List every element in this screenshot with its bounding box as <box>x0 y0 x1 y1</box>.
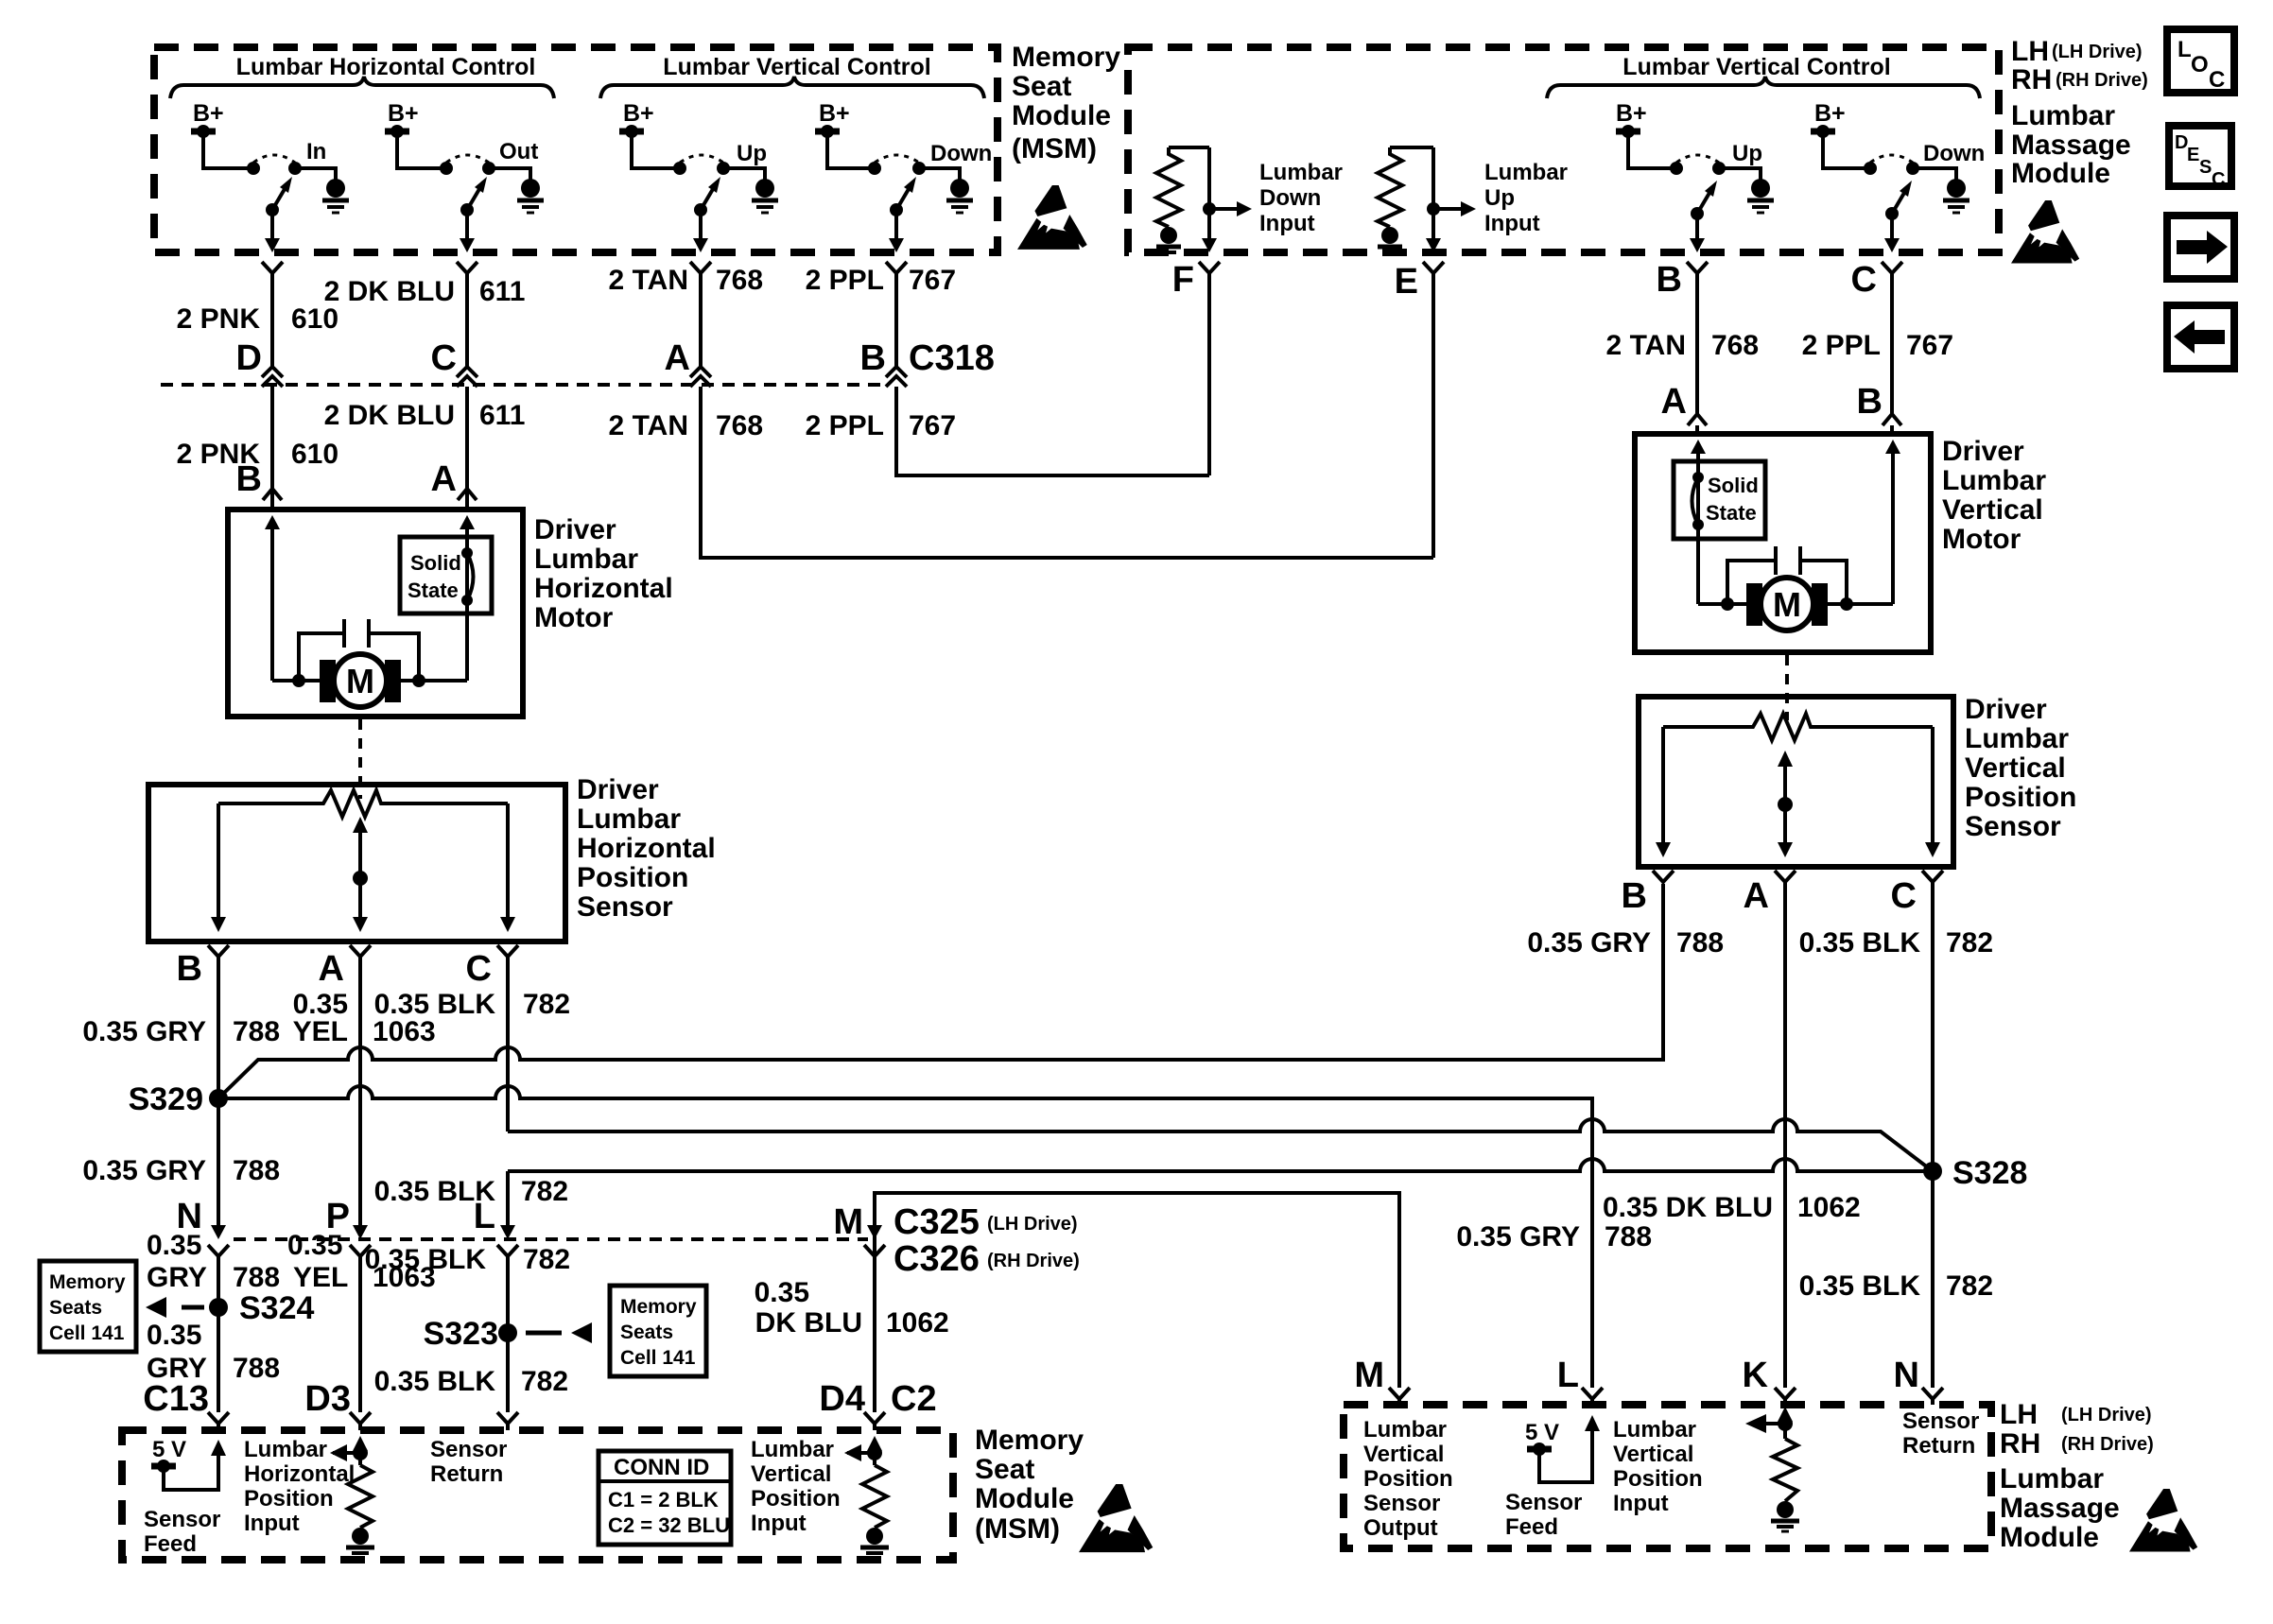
connector leaving module on E wire <box>1423 262 1444 273</box>
ground below horizontal position input resistor <box>352 1528 369 1545</box>
svg-text:Return: Return <box>1902 1433 1975 1459</box>
svg-text:5 V: 5 V <box>152 1437 186 1462</box>
reference box: CONN ID <box>599 1451 731 1545</box>
switch SW6 Down: dashed throw arc <box>1870 155 1913 163</box>
svg-text:782: 782 <box>523 989 570 1020</box>
svg-text:Module: Module <box>1012 100 1111 131</box>
svg-text:2 PPL: 2 PPL <box>806 410 884 441</box>
ground below vertical position input resistor (massage module) <box>1777 1501 1794 1518</box>
svg-text:Seat: Seat <box>1012 71 1071 102</box>
node: left brush junction <box>292 674 305 687</box>
svg-text:Horizontal: Horizontal <box>244 1461 355 1487</box>
svg-text:Output: Output <box>1363 1515 1438 1541</box>
svg-text:Solid: Solid <box>410 551 461 575</box>
svg-text:C: C <box>1891 876 1917 916</box>
svg-text:0.35 GRY: 0.35 GRY <box>1527 927 1651 959</box>
wire: brush line left (vertical motor) <box>1698 602 1751 606</box>
svg-text:CONN ID: CONN ID <box>614 1455 709 1480</box>
svg-text:S328: S328 <box>1952 1155 2027 1191</box>
wire: 0.35 DK BLU 1062 from M to D4 <box>873 1256 876 1412</box>
svg-text:Solid: Solid <box>1708 474 1759 497</box>
potentiometer resistor (horizontal) <box>218 790 508 817</box>
svg-text:S324: S324 <box>239 1290 314 1326</box>
wire: B+ feed to Out switch contact <box>397 134 441 168</box>
svg-text:L: L <box>2178 37 2192 62</box>
svg-text:C13: C13 <box>143 1379 209 1419</box>
wire: E output inside module <box>1431 147 1435 240</box>
svg-text:(RH Drive): (RH Drive) <box>2056 70 2148 91</box>
switch SW2 Out: movable arm <box>460 203 474 216</box>
wire: sensor leg C with arrow (right sensor) <box>1931 727 1935 844</box>
motor M armature (horizontal) <box>320 660 336 702</box>
wire: dashed mechanical link motor to position sensor <box>358 719 362 799</box>
svg-text:Position: Position <box>1965 782 2076 813</box>
brace under Lumbar Vertical Control (right) <box>1547 77 1980 98</box>
svg-text:(LH Drive): (LH Drive) <box>2052 42 2143 62</box>
svg-text:Driver: Driver <box>534 514 616 545</box>
wire: B+ feed to Down switch contact (right) <box>1823 134 1865 168</box>
svg-text:Lumbar: Lumbar <box>2000 1463 2104 1494</box>
wire: sensor leg B with arrow (right sensor) <box>1661 727 1665 844</box>
connector leaving module on F wire <box>1199 262 1220 273</box>
svg-text:0.35 BLK: 0.35 BLK <box>1799 1270 1921 1302</box>
svg-text:B: B <box>860 338 886 378</box>
svg-text:0.35: 0.35 <box>755 1277 809 1308</box>
svg-text:Lumbar: Lumbar <box>1363 1417 1447 1443</box>
svg-text:Seats: Seats <box>49 1297 102 1319</box>
icon: forward arrow box <box>2167 216 2234 279</box>
svg-text:Lumbar Horizontal Control: Lumbar Horizontal Control <box>236 54 536 80</box>
svg-text:C: C <box>2212 169 2225 190</box>
svg-text:Seat: Seat <box>975 1454 1034 1485</box>
svg-text:Motor: Motor <box>534 602 614 633</box>
svg-text:1062: 1062 <box>886 1307 949 1339</box>
ground after Up switch (right) <box>1751 179 1770 198</box>
switch SW1 In: dashed throw arc <box>253 155 295 163</box>
svg-text:Memory: Memory <box>1012 42 1120 73</box>
svg-text:LH: LH <box>2000 1399 2038 1430</box>
svg-text:Feed: Feed <box>144 1531 197 1557</box>
wire: SW6 arm down to module edge with arrow <box>1890 214 1894 240</box>
svg-text:788: 788 <box>1605 1221 1652 1253</box>
svg-text:0.35 DK BLU: 0.35 DK BLU <box>1603 1192 1773 1223</box>
svg-text:B: B <box>236 459 262 499</box>
svg-text:0.35 GRY: 0.35 GRY <box>1456 1221 1580 1253</box>
svg-text:767: 767 <box>1906 330 1953 361</box>
svg-text:Driver: Driver <box>1942 436 2024 467</box>
svg-text:Lumbar: Lumbar <box>2011 100 2115 131</box>
potentiometer wiper with junction <box>353 817 368 833</box>
svg-text:782: 782 <box>523 1244 570 1275</box>
switch SW3 Up: contact dots <box>673 162 686 175</box>
module box: Lumbar Massage Module top assembly <box>1128 47 1999 252</box>
svg-text:Out: Out <box>499 139 538 164</box>
svg-text:Vertical: Vertical <box>751 1461 831 1487</box>
svg-text:A: A <box>1661 382 1687 422</box>
svg-text:Horizontal: Horizontal <box>577 833 716 864</box>
svg-text:C326: C326 <box>894 1239 980 1279</box>
wire: Out contact to ground <box>495 168 530 180</box>
wire: 0.35 GRY 788 from sensor B to S329 <box>217 957 220 1225</box>
svg-text:(RH Drive): (RH Drive) <box>987 1251 1080 1271</box>
svg-text:Cell 141: Cell 141 <box>49 1322 125 1344</box>
wire: B+ feed to Up switch contact (right) <box>1628 134 1671 168</box>
svg-text:Lumbar: Lumbar <box>1484 160 1568 185</box>
dashed reference arrow S324 to Memory Seats <box>182 1305 204 1310</box>
svg-text:788: 788 <box>233 1016 280 1047</box>
wire: S329 to right sensor feed (upper 788 run) <box>218 884 1663 1098</box>
sensor box: Driver Lumbar Horizontal Position Sensor <box>148 785 565 942</box>
svg-text:1063: 1063 <box>373 1016 436 1047</box>
svg-text:782: 782 <box>1946 927 1993 959</box>
switch SW6 Down: movable arm <box>1885 207 1899 220</box>
svg-text:(LH Drive): (LH Drive) <box>2061 1405 2152 1425</box>
svg-text:0.35 GRY: 0.35 GRY <box>82 1155 206 1186</box>
motor U2: Driver Lumbar Vertical Motor box <box>1635 434 1931 652</box>
wire: Up contact to ground <box>729 168 765 180</box>
resistor: lumbar horizontal position input load <box>358 1449 362 1465</box>
resistor: lumbar vertical position input load (MSM) <box>873 1449 876 1465</box>
svg-text:Massage: Massage <box>2011 130 2131 161</box>
svg-text:Down: Down <box>930 141 992 166</box>
svg-text:Sensor: Sensor <box>1505 1490 1582 1515</box>
brace under Lumbar Horizontal Control <box>170 77 554 98</box>
resistor: Lumbar Down Input pull-up <box>1169 146 1209 149</box>
svg-text:2 TAN: 2 TAN <box>1606 330 1686 361</box>
switch SW5 Up: contact dots <box>1670 162 1683 175</box>
svg-text:B+: B+ <box>193 100 224 127</box>
wire: F vertical down to link <box>1207 273 1211 475</box>
svg-text:M: M <box>1773 585 1801 624</box>
svg-text:768: 768 <box>1711 330 1759 361</box>
svg-text:B: B <box>1657 260 1682 300</box>
svg-text:B+: B+ <box>819 100 850 127</box>
svg-text:Position: Position <box>577 862 688 893</box>
svg-text:RH: RH <box>2000 1428 2040 1460</box>
ESD symbol (top right module) <box>2011 200 2079 264</box>
svg-text:B: B <box>177 949 202 989</box>
wire: B+ feed to Down switch contact <box>827 134 869 168</box>
svg-text:(MSM): (MSM) <box>1012 133 1097 164</box>
svg-text:K: K <box>1743 1356 1769 1395</box>
wire: sensor leg B with arrow <box>217 803 220 919</box>
wire: Down contact to ground <box>925 168 960 180</box>
wire: sensor leg C with arrow <box>506 803 510 919</box>
node: right brush junction (vertical motor) <box>1840 597 1853 611</box>
wire: right sensor C through S328 to pin N <box>1931 882 1935 1388</box>
connector leaving module on right B wire <box>1687 262 1708 273</box>
wire: E vertical down to link <box>1431 273 1435 558</box>
svg-text:Feed: Feed <box>1505 1514 1558 1540</box>
brace under Lumbar Vertical Control (left) <box>600 77 984 98</box>
svg-text:2 DK BLU: 2 DK BLU <box>324 276 455 307</box>
svg-text:C: C <box>2209 67 2225 93</box>
svg-text:767: 767 <box>909 410 956 441</box>
ESD symbol (bottom right module) <box>2129 1489 2197 1552</box>
node: junction on E wire <box>1427 202 1440 216</box>
connector leaving MSM on A wire <box>690 262 711 273</box>
motor U1: Driver Lumbar Horizontal Motor box <box>228 510 523 717</box>
svg-text:610: 610 <box>291 303 338 335</box>
svg-text:A: A <box>1744 876 1769 916</box>
svg-text:Lumbar: Lumbar <box>577 803 681 835</box>
svg-text:S323: S323 <box>424 1316 498 1352</box>
wire: 2 PPL 767 upper segment (B) <box>894 273 898 367</box>
svg-text:A: A <box>665 338 690 378</box>
svg-text:Sensor: Sensor <box>430 1437 507 1462</box>
svg-text:Sensor: Sensor <box>1363 1491 1440 1516</box>
svg-text:C318: C318 <box>909 338 995 378</box>
wire: SW2 arm down to module edge with arrow <box>465 210 469 240</box>
switch SW1 In: contact dots <box>247 162 260 175</box>
svg-text:1062: 1062 <box>1797 1192 1861 1223</box>
wire: Down contact to ground (right) <box>1918 168 1956 180</box>
splice S329 <box>209 1089 228 1108</box>
dashed reference arrow S323 to Memory Seats <box>526 1331 562 1336</box>
svg-text:Module: Module <box>2000 1522 2099 1553</box>
svg-text:DK BLU: DK BLU <box>755 1307 862 1339</box>
svg-text:Input: Input <box>1259 211 1315 236</box>
svg-text:Input: Input <box>751 1511 807 1536</box>
wire: SW5 arm down to module edge with arrow <box>1695 214 1699 240</box>
svg-text:Vertical: Vertical <box>1363 1442 1444 1467</box>
wire: M link from MSM to massage module sensor output <box>875 1193 1399 1388</box>
motor M armature (vertical) <box>1746 583 1762 626</box>
wire: SW4 arm down to module edge with arrow <box>894 210 898 240</box>
svg-text:2 PNK: 2 PNK <box>177 303 261 335</box>
svg-text:M: M <box>833 1202 863 1242</box>
solid state switch box (vertical motor) <box>1674 461 1765 539</box>
svg-text:Input: Input <box>244 1511 300 1536</box>
svg-text:782: 782 <box>521 1176 568 1207</box>
ground below Lumbar Down Input resistor <box>1160 227 1177 244</box>
svg-text:YEL: YEL <box>293 1262 348 1293</box>
svg-text:C2: C2 <box>891 1379 937 1419</box>
svg-text:2 TAN: 2 TAN <box>609 265 688 296</box>
svg-text:Memory: Memory <box>620 1296 697 1318</box>
svg-text:D3: D3 <box>304 1379 351 1419</box>
wire: right sensor wiper to pin K (1062 run) <box>1783 882 1787 1388</box>
svg-text:788: 788 <box>233 1262 280 1293</box>
splice S328 <box>1923 1162 1942 1181</box>
connector leaving MSM on C wire <box>457 262 477 273</box>
svg-text:Up: Up <box>1484 185 1515 211</box>
wire: 2 PPL 767 right segment <box>1890 273 1894 414</box>
svg-text:Vertical: Vertical <box>1942 494 2043 526</box>
module box: Lumbar Massage Module bottom <box>1344 1405 1991 1548</box>
svg-text:Sensor: Sensor <box>144 1507 220 1532</box>
wire: motor pin A internal with arrow <box>465 527 469 681</box>
svg-text:610: 610 <box>291 439 338 470</box>
node: junction on F wire <box>1203 202 1216 216</box>
svg-text:Sensor: Sensor <box>577 891 673 923</box>
ESD symbol (bottom MSM) <box>1079 1484 1153 1552</box>
wire: F output inside module <box>1207 147 1211 240</box>
svg-text:D4: D4 <box>819 1379 865 1419</box>
connector leaving module on right C wire <box>1882 262 1902 273</box>
icon: back arrow box <box>2167 305 2234 369</box>
svg-text:N: N <box>1894 1356 1919 1395</box>
ground after Down switch <box>950 179 969 198</box>
svg-text:State: State <box>408 579 459 602</box>
svg-text:2 PPL: 2 PPL <box>806 265 884 296</box>
svg-text:S: S <box>2199 157 2212 178</box>
module box: Memory Seat Module (MSM) bottom <box>122 1430 953 1560</box>
svg-text:767: 767 <box>909 265 956 296</box>
svg-text:0.35 BLK: 0.35 BLK <box>1799 927 1921 959</box>
5V supply symbol (massage module) <box>1527 1446 1552 1453</box>
svg-text:D: D <box>236 338 262 378</box>
svg-text:State: State <box>1706 501 1757 525</box>
solid state switch box (horizontal motor) <box>400 537 492 613</box>
wire: B+ feed to In switch contact <box>203 134 248 168</box>
svg-text:Lumbar: Lumbar <box>244 1437 327 1462</box>
svg-text:Position: Position <box>244 1486 334 1512</box>
switch SW4 Down: contact dots <box>868 162 881 175</box>
svg-text:611: 611 <box>479 400 525 431</box>
node: right brush junction <box>412 674 425 687</box>
svg-text:768: 768 <box>716 410 763 441</box>
splice S324 <box>209 1298 228 1317</box>
switch SW2 Out: dashed throw arc <box>446 155 489 163</box>
wire: L drop to MSM sensor return <box>506 1171 510 1225</box>
svg-text:C: C <box>466 949 492 989</box>
connector leaving MSM on B wire <box>886 262 907 273</box>
svg-text:Horizontal: Horizontal <box>534 573 673 604</box>
svg-text:Vertical: Vertical <box>1965 752 2066 784</box>
svg-text:M: M <box>346 662 374 700</box>
svg-text:Input: Input <box>1613 1491 1669 1516</box>
reference box: Memory Seats Cell 141 (left) <box>40 1261 136 1352</box>
svg-text:(MSM): (MSM) <box>975 1513 1060 1545</box>
svg-text:A: A <box>319 949 344 989</box>
connector leaving MSM on D wire <box>262 262 283 273</box>
svg-text:RH: RH <box>2011 64 2052 95</box>
svg-text:Seats: Seats <box>620 1322 673 1343</box>
icon: DESC reference box <box>2169 126 2231 186</box>
svg-text:C1 = 2 BLK: C1 = 2 BLK <box>608 1488 719 1512</box>
wire: dashed mechanical link vertical motor to sensor <box>1785 655 1789 720</box>
svg-text:Sensor: Sensor <box>1965 811 2061 842</box>
pin L of MSM <box>497 1412 518 1424</box>
svg-text:Module: Module <box>975 1483 1074 1514</box>
svg-text:B: B <box>1622 876 1647 916</box>
svg-text:Lumbar: Lumbar <box>1965 723 2069 754</box>
switch SW5 Up: dashed throw arc <box>1676 155 1719 163</box>
svg-text:768: 768 <box>716 265 763 296</box>
svg-text:0.35 BLK: 0.35 BLK <box>365 1244 487 1275</box>
svg-text:M: M <box>1354 1356 1384 1395</box>
svg-text:611: 611 <box>479 276 525 307</box>
wire: 0.35 GRY 788 from N to S324 and C13 <box>217 1256 220 1412</box>
svg-text:2 PPL: 2 PPL <box>1802 330 1881 361</box>
svg-text:B+: B+ <box>1814 100 1846 127</box>
svg-text:Lumbar: Lumbar <box>1613 1417 1696 1443</box>
switch SW4 Down: dashed throw arc <box>875 155 919 163</box>
svg-text:Memory: Memory <box>975 1425 1084 1456</box>
svg-text:(LH Drive): (LH Drive) <box>987 1214 1078 1235</box>
svg-text:S329: S329 <box>129 1081 203 1117</box>
svg-text:E: E <box>2187 145 2199 165</box>
wire: sensor C to S328 (782 run) <box>508 1119 1933 1171</box>
svg-text:0.35: 0.35 <box>287 1230 342 1261</box>
svg-text:GRY: GRY <box>147 1262 207 1293</box>
svg-text:Lumbar: Lumbar <box>1942 465 2046 496</box>
svg-text:L: L <box>1557 1356 1579 1395</box>
wire: 0.35 BLK 782 from sensor C <box>506 957 510 1132</box>
svg-text:Motor: Motor <box>1942 524 2021 555</box>
switch SW2 Out: contact dots <box>440 162 453 175</box>
switch SW6 Down: contact dots <box>1864 162 1877 175</box>
svg-text:B+: B+ <box>388 100 419 127</box>
ground below Lumbar Up Input resistor <box>1381 227 1398 244</box>
wire: 5V feed elbow to C13 with arrow <box>164 1454 218 1490</box>
svg-text:B: B <box>1857 382 1883 422</box>
resistor: Lumbar Up Input pull-up <box>1390 146 1433 149</box>
wire: B+ feed to Up switch contact <box>632 134 674 168</box>
arrow: Lumbar Up Input signal <box>1433 207 1461 211</box>
potentiometer resistor (vertical sensor) <box>1663 714 1933 740</box>
wire: 0.35 YEL 1063 from P to D3 <box>358 1256 362 1412</box>
svg-text:788: 788 <box>233 1353 280 1384</box>
svg-text:F: F <box>1172 260 1194 300</box>
svg-text:Lumbar: Lumbar <box>1259 160 1343 185</box>
icon: LOC reference box <box>2167 29 2234 93</box>
connector C325/C326 dashed line <box>234 1237 868 1241</box>
svg-text:Sensor: Sensor <box>1902 1408 1979 1434</box>
svg-text:Vertical: Vertical <box>1613 1442 1693 1467</box>
capacitor across horizontal motor <box>299 633 344 679</box>
wire: S328 to MSM sensor return (782 run) <box>508 1159 1933 1171</box>
ground after In switch <box>326 179 345 198</box>
svg-text:788: 788 <box>1676 927 1724 959</box>
svg-text:LH: LH <box>2011 36 2049 67</box>
resistor: vertical position input load (massage module) <box>1783 1420 1787 1439</box>
sensor box: Driver Lumbar Vertical Position Sensor <box>1639 697 1953 867</box>
svg-text:C2 = 32 BLU: C2 = 32 BLU <box>608 1513 730 1537</box>
svg-text:Massage: Massage <box>2000 1493 2120 1524</box>
module box: Memory Seat Module (MSM) top switch assembly <box>154 47 998 252</box>
wire: 2 PNK 610 lower segment to motor pin B <box>270 387 274 510</box>
svg-text:782: 782 <box>1946 1270 1993 1302</box>
switch SW5 Up: movable arm <box>1691 207 1704 220</box>
wire: 2 TAN 768 right segment <box>1695 273 1699 414</box>
splice S323 <box>498 1323 517 1342</box>
svg-text:Lumbar Vertical Control: Lumbar Vertical Control <box>1622 54 1890 80</box>
svg-text:E: E <box>1395 262 1418 302</box>
capacitor across vertical motor <box>1727 561 1776 602</box>
ground after Down switch (right) <box>1947 179 1966 198</box>
svg-text:Cell 141: Cell 141 <box>620 1347 696 1369</box>
svg-text:YEL: YEL <box>293 1016 348 1047</box>
wire: 2 PNK 610 upper segment (D) <box>270 273 274 367</box>
switch SW3 Up: dashed throw arc <box>680 155 723 163</box>
svg-text:C: C <box>1851 260 1877 300</box>
svg-text:O: O <box>2191 52 2209 78</box>
svg-text:Down: Down <box>1259 185 1321 211</box>
svg-text:Lumbar Vertical Control: Lumbar Vertical Control <box>663 54 930 80</box>
wire: stub into vertical motor box (B) <box>1890 425 1894 434</box>
switch SW1 In: movable arm <box>266 203 279 216</box>
wire: brush line left <box>272 679 325 682</box>
ground after Up switch <box>755 179 774 198</box>
svg-text:Driver: Driver <box>1965 694 2047 725</box>
svg-text:2 DK BLU: 2 DK BLU <box>324 400 455 431</box>
ground after Out switch <box>521 179 540 198</box>
ESD symbol (top left MSM) <box>1017 185 1087 250</box>
arrow: Lumbar Down Input signal <box>1209 207 1237 211</box>
wire: SW3 arm down to module edge with arrow <box>699 210 703 240</box>
